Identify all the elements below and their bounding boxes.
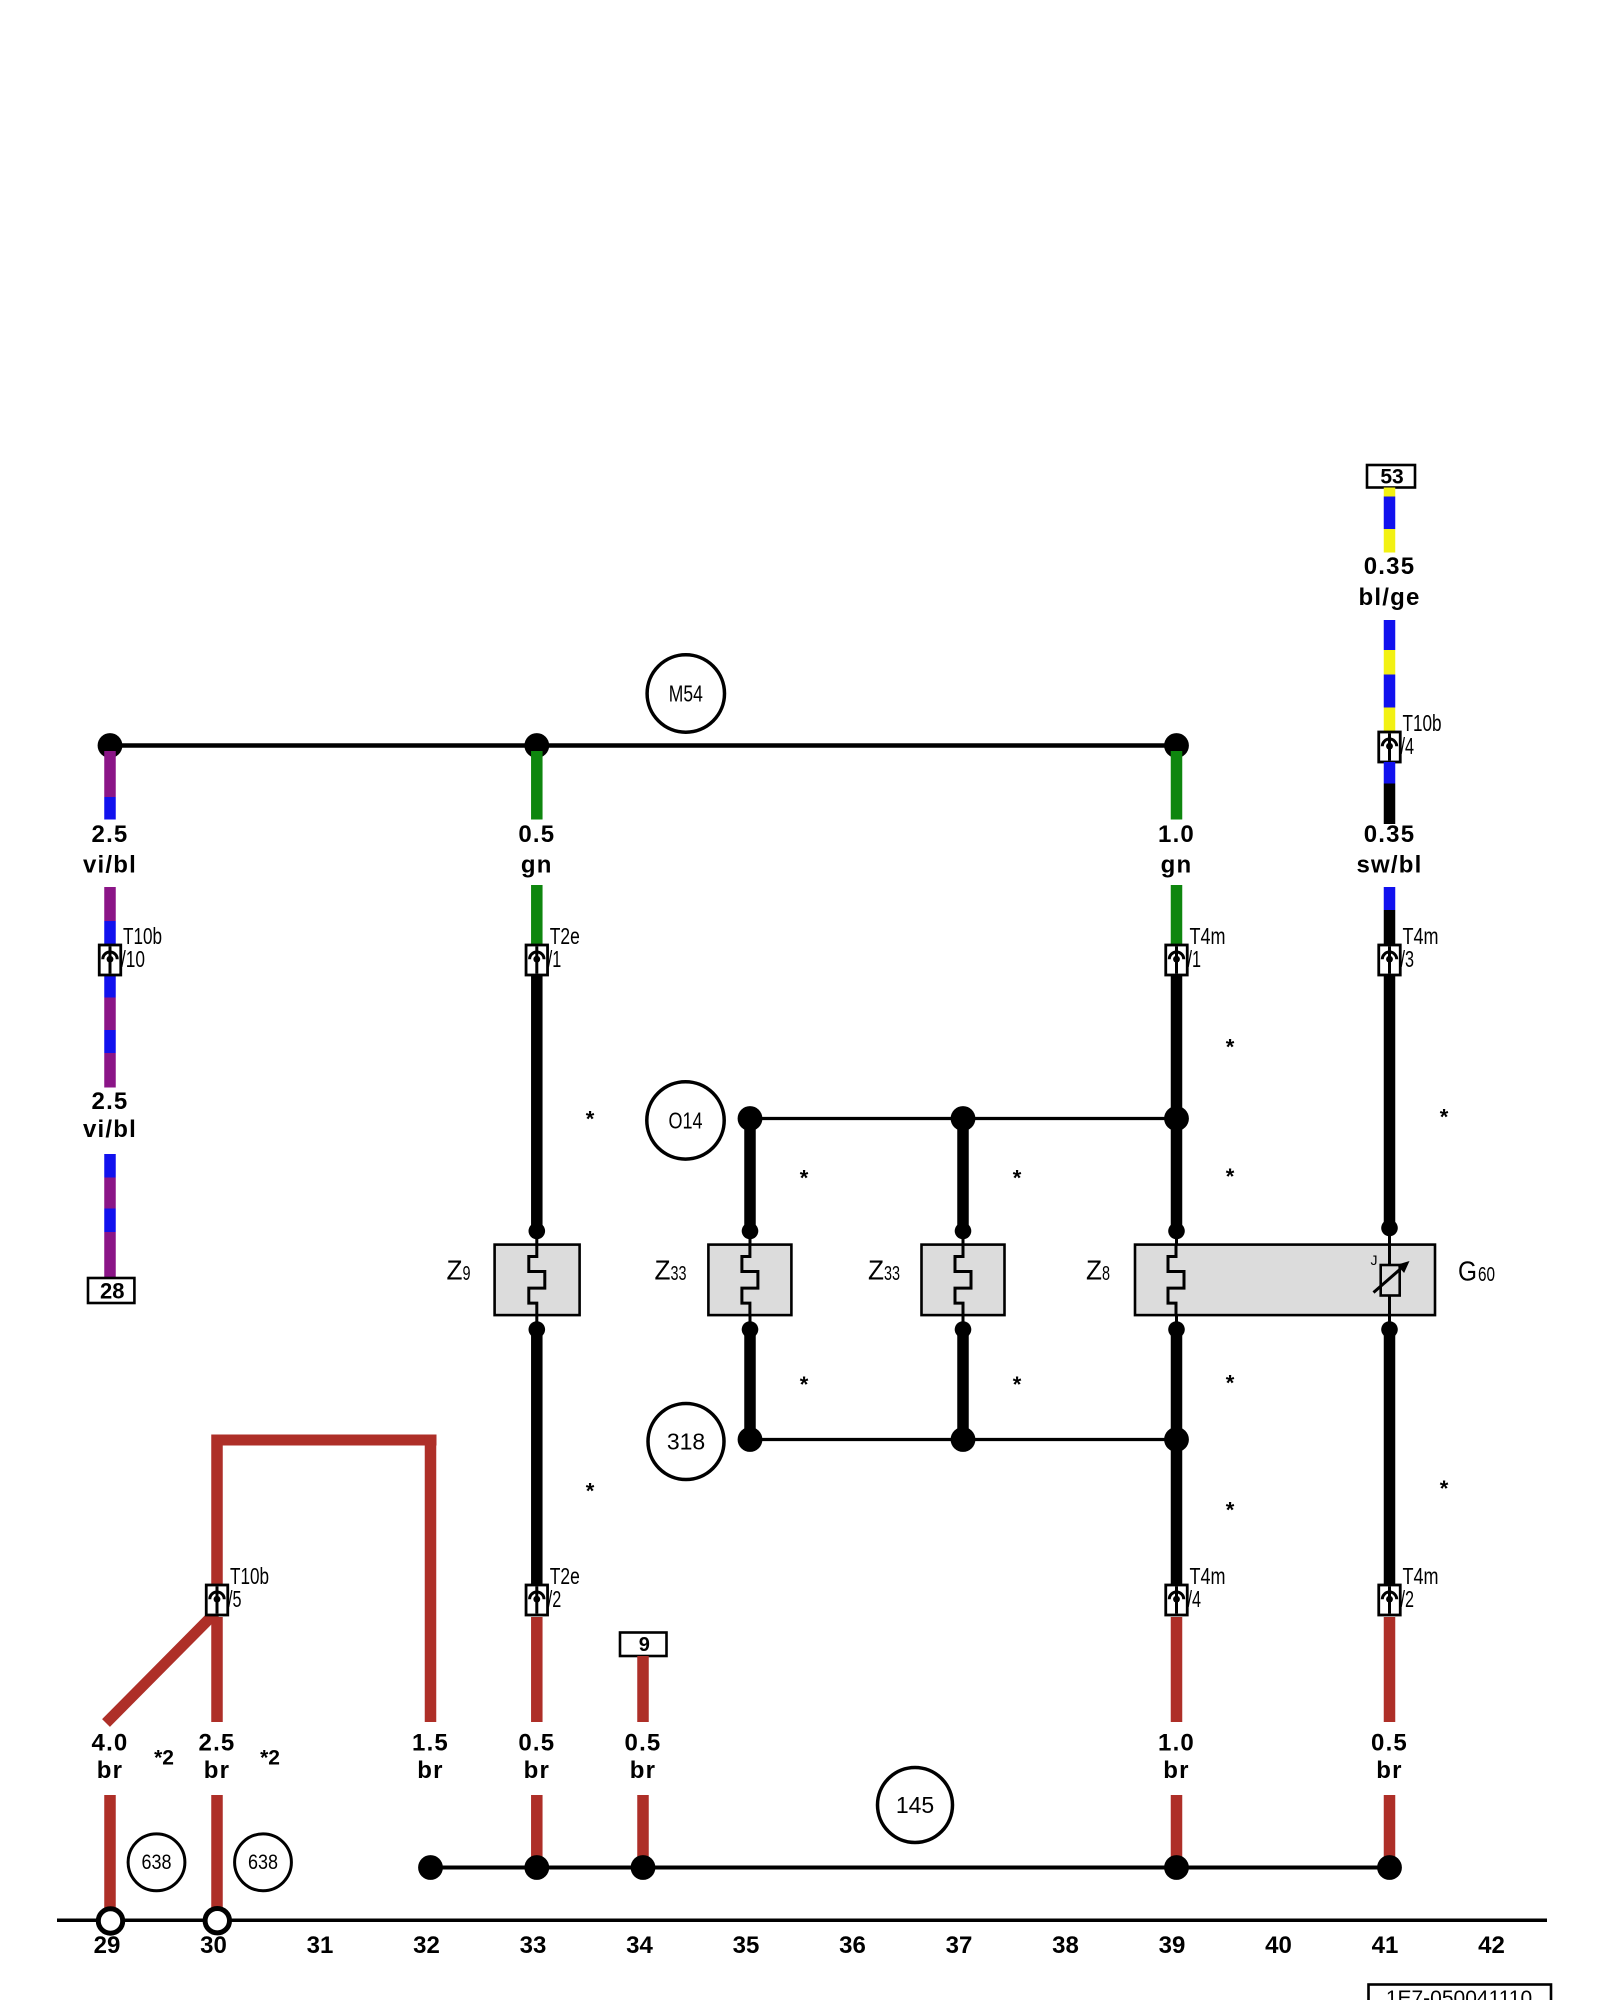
svg-text:8: 8 [1102,1263,1110,1285]
svg-text:br: br [97,1757,123,1784]
svg-text:38: 38 [1052,1932,1079,1959]
svg-text:*2: *2 [154,1747,174,1770]
svg-text:*: * [800,1165,809,1190]
svg-text:O14: O14 [669,1107,703,1133]
svg-text:1E7-050041110: 1E7-050041110 [1386,1987,1532,2000]
svg-text:4.0: 4.0 [92,1730,129,1757]
svg-text:*: * [586,1106,595,1131]
svg-text:60: 60 [1478,1264,1495,1286]
svg-text:2.5: 2.5 [199,1730,236,1757]
svg-text:0.35: 0.35 [1364,553,1416,580]
svg-text:*: * [1440,1104,1449,1129]
svg-text:*: * [1226,1164,1235,1189]
svg-text:*: * [1226,1034,1235,1059]
svg-text:37: 37 [946,1932,973,1959]
svg-text:G: G [1458,1256,1477,1287]
svg-text:33: 33 [671,1263,687,1285]
svg-text:34: 34 [626,1932,653,1959]
svg-text:9: 9 [463,1263,471,1285]
svg-text:41: 41 [1372,1932,1399,1959]
svg-text:0.35: 0.35 [1364,821,1416,848]
svg-text:638: 638 [142,1851,172,1874]
svg-text:/10: /10 [121,946,145,972]
svg-text:/1: /1 [1188,946,1202,972]
svg-text:Z: Z [655,1255,671,1286]
svg-text:br: br [524,1757,550,1784]
svg-text:/4: /4 [1401,733,1415,759]
svg-text:0.5: 0.5 [625,1730,662,1757]
svg-text:638: 638 [248,1851,278,1874]
svg-text:2.5: 2.5 [92,1088,129,1115]
svg-text:32: 32 [413,1932,440,1959]
svg-text:9: 9 [639,1634,650,1656]
svg-text:vi/bl: vi/bl [83,852,137,879]
svg-text:29: 29 [94,1932,121,1959]
svg-text:*: * [800,1372,809,1397]
svg-text:bl/ge: bl/ge [1358,584,1420,611]
svg-text:0.5: 0.5 [1371,1730,1408,1757]
svg-text:*: * [1013,1165,1022,1190]
svg-text:0.5: 0.5 [518,1730,555,1757]
svg-text:Z: Z [868,1255,884,1286]
svg-text:33: 33 [520,1932,547,1959]
svg-text:33: 33 [884,1263,900,1285]
svg-text:2.5: 2.5 [92,821,129,848]
svg-text:vi/bl: vi/bl [83,1116,137,1143]
svg-text:br: br [1376,1757,1402,1784]
svg-text:/1: /1 [548,946,562,972]
svg-text:br: br [630,1757,656,1784]
svg-text:1.5: 1.5 [412,1730,449,1757]
svg-text:318: 318 [667,1429,705,1455]
svg-text:35: 35 [733,1932,760,1959]
svg-text:53: 53 [1380,465,1403,488]
svg-text:36: 36 [839,1932,866,1959]
svg-text:br: br [204,1757,230,1784]
svg-text:/4: /4 [1188,1586,1202,1612]
svg-text:J: J [1371,1252,1378,1268]
svg-text:Z: Z [1086,1255,1102,1286]
svg-text:*: * [1013,1372,1022,1397]
svg-text:28: 28 [100,1279,124,1304]
svg-text:gn: gn [521,852,553,879]
svg-text:/2: /2 [1401,1586,1415,1612]
svg-text:*: * [586,1478,595,1503]
svg-text:1.0: 1.0 [1158,821,1195,848]
svg-text:42: 42 [1478,1932,1505,1959]
svg-text:br: br [417,1757,443,1784]
svg-text:M54: M54 [669,681,703,707]
svg-text:145: 145 [896,1792,934,1818]
svg-text:/3: /3 [1401,946,1415,972]
svg-text:30: 30 [200,1932,227,1959]
svg-text:/5: /5 [228,1586,242,1612]
svg-text:/2: /2 [548,1586,562,1612]
svg-text:40: 40 [1265,1932,1292,1959]
svg-text:Z: Z [447,1255,463,1286]
svg-text:1.0: 1.0 [1158,1730,1195,1757]
svg-text:*2: *2 [260,1747,280,1770]
svg-text:*: * [1226,1370,1235,1395]
svg-text:*: * [1440,1476,1449,1501]
svg-text:sw/bl: sw/bl [1356,852,1422,879]
svg-text:br: br [1163,1757,1189,1784]
svg-text:39: 39 [1159,1932,1186,1959]
svg-text:*: * [1226,1497,1235,1522]
svg-text:0.5: 0.5 [518,821,555,848]
svg-text:gn: gn [1161,852,1193,879]
svg-text:31: 31 [307,1932,334,1959]
